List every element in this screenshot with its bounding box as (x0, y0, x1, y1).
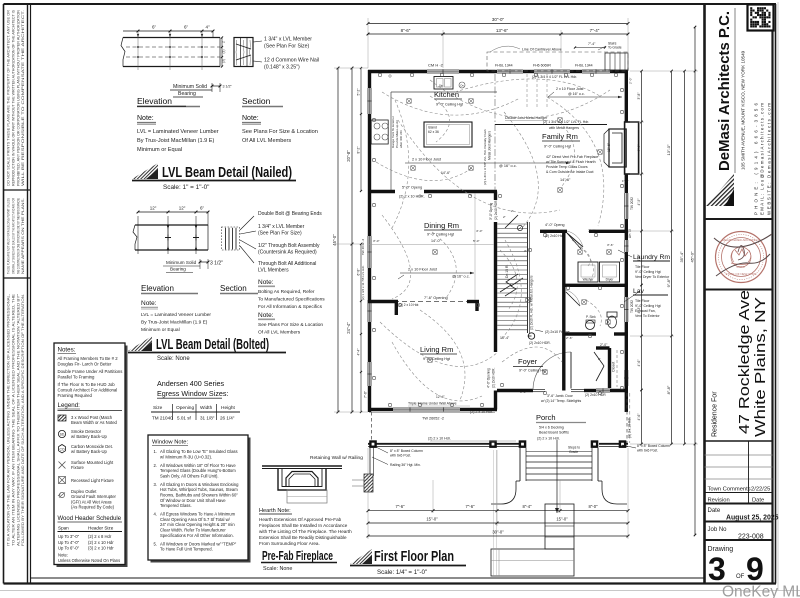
svg-text:DeMasi Architects P.C.: DeMasi Architects P.C. (717, 11, 733, 171)
svg-text:By Trus-Joist MacMillan (1.9 E: By Trus-Joist MacMillan (1.9 E) (141, 320, 208, 326)
svg-text:FH6 6069R: FH6 6069R (533, 64, 551, 68)
svg-text:THESE PLANS ARE NOT VALID FOR: THESE PLANS ARE NOT VALID FOR A BUILDING… (7, 197, 11, 274)
svg-text:See Plans For Size & Location: See Plans For Size & Location (242, 129, 318, 135)
svg-text:(2) 2x10 Hdr.: (2) 2x10 Hdr. (545, 234, 565, 238)
svg-text:& Com Outside Air Intake Duct: & Com Outside Air Intake Duct (546, 170, 593, 174)
svg-text:Bearing: Bearing (170, 267, 186, 272)
svg-text:Steps to: Steps to (568, 446, 580, 450)
svg-text:AH 75: AH 75 (628, 229, 632, 238)
svg-text:(See Plan For Size): (See Plan For Size) (264, 44, 310, 50)
svg-text:@ 16" o.c.: @ 16" o.c. (499, 164, 517, 168)
svg-text:Kitchen: Kitchen (434, 90, 459, 99)
svg-text:(2) 1-3/4 x 4 1/2" FL LVL Hdr.: (2) 1-3/4 x 4 1/2" FL LVL Hdr. (532, 75, 577, 79)
svg-text:Scale: None: Scale: None (157, 356, 190, 362)
svg-text:Clear Opening Area Of 5.7 Sf T: Clear Opening Area Of 5.7 Sf Total w/ (160, 517, 231, 522)
svg-text:(2) 2 x 10 Hdr: (2) 2 x 10 Hdr (88, 540, 114, 545)
svg-text:Triple Frame Under Wall Above: Triple Frame Under Wall Above (408, 402, 457, 406)
svg-text:11"-6": 11"-6" (607, 142, 611, 152)
svg-text:20"-8": 20"-8" (346, 150, 351, 162)
svg-text:with 6x6 Post.: with 6x6 Post. (637, 449, 658, 453)
svg-text:(2) 1 3/4 x 11 7/8 LVL Hdr.: (2) 1 3/4 x 11 7/8 LVL Hdr. (361, 265, 365, 300)
svg-text:4"-9": 4"-9" (637, 199, 641, 206)
svg-text:Section: Section (220, 284, 247, 293)
svg-text:Tile Floor: Tile Floor (635, 265, 650, 269)
svg-text:Date: Date (708, 508, 721, 514)
svg-text:9"-0" Ceiling Hgt: 9"-0" Ceiling Hgt (427, 233, 454, 237)
svg-text:All Framing Members To Be # 2: All Framing Members To Be # 2 (58, 356, 119, 361)
svg-text:9"-0" Ceiling Hgt: 9"-0" Ceiling Hgt (635, 270, 661, 274)
svg-text:(2) 2x10 HDR.: (2) 2x10 HDR. (529, 341, 551, 345)
svg-text:7"-6": 7"-6" (364, 391, 368, 398)
svg-text:Washer: Washer (583, 278, 595, 282)
svg-text:Living Rm: Living Rm (420, 345, 453, 354)
svg-text:3"-8": 3"-8" (637, 93, 641, 100)
svg-text:TW 26052 -2: TW 26052 -2 (422, 417, 444, 421)
svg-text:4"-4": 4"-4" (637, 145, 641, 152)
svg-text:8" x 8" Boxed Column: 8" x 8" Boxed Column (390, 449, 423, 453)
svg-text:Extension Shall Be Readily Dis: Extension Shall Be Readily Distinguishab… (259, 535, 347, 540)
svg-text:8"-4": 8"-4" (522, 504, 532, 509)
svg-text:WEBSITE: DemasiArchitects.c: WEBSITE: DemasiArchitects.com (767, 103, 772, 215)
svg-text:2.: 2. (154, 463, 158, 468)
svg-text:Egress Window Sizes:: Egress Window Sizes: (157, 389, 229, 398)
svg-text:6": 6" (184, 25, 189, 30)
svg-text:031047: 031047 (737, 265, 746, 269)
svg-text:LVL Members: LVL Members (258, 268, 289, 274)
svg-text:with 6x6 Post.: with 6x6 Post. (390, 454, 411, 458)
svg-text:9"-0" Ceiling Hgt: 9"-0" Ceiling Hgt (544, 145, 571, 149)
svg-text:4"-3": 4"-3" (637, 307, 641, 314)
svg-text:Note:: Note: (58, 553, 68, 558)
svg-text:30"-0": 30"-0" (492, 530, 504, 535)
svg-text:4"-6": 4"-6" (637, 360, 641, 367)
svg-text:Beam Width or As Noted: Beam Width or As Noted (71, 420, 118, 425)
svg-text:(2) 2 x 10 Hdr.: (2) 2 x 10 Hdr. (399, 303, 419, 307)
svg-text:4"-0" Openg: 4"-0" Openg (545, 223, 565, 227)
svg-text:All Windows Within 18" Of Floo: All Windows Within 18" Of Floor To Have (160, 463, 236, 468)
svg-text:(2) 1 3/4" x 4 1/2" LVL FL Hdr: (2) 1 3/4" x 4 1/2" LVL FL Hdr. (543, 120, 589, 124)
svg-text:7"-4": 7"-4" (590, 28, 600, 33)
svg-text:(2) 2x10 Frame: (2) 2x10 Frame (545, 330, 570, 334)
svg-text:Bead Board Soffits: Bead Board Soffits (539, 431, 569, 435)
svg-text:(As Required By Code): (As Required By Code) (71, 505, 115, 510)
svg-text:Island: Island (428, 126, 437, 130)
svg-text:Header Size: Header Size (88, 526, 114, 531)
svg-text:(2) 2 x 10 Hdr.: (2) 2 x 10 Hdr. (428, 437, 451, 441)
svg-text:62 x 36: 62 x 36 (428, 130, 439, 134)
svg-text:Town Comments: Town Comments (708, 487, 751, 493)
svg-text:w/ Battery Back-Up: w/ Battery Back-Up (71, 434, 108, 439)
svg-text:12 d Common Wire Nail: 12 d Common Wire Nail (264, 58, 319, 64)
svg-text:2: 2 (222, 41, 226, 43)
svg-text:Tempered Glass (Double Hung"s-: Tempered Glass (Double Hung"s-Bottom (160, 468, 236, 473)
svg-text:Height: Height (221, 405, 236, 411)
svg-text:13"-4": 13"-4" (500, 336, 510, 340)
svg-text:31 1/8": 31 1/8" (200, 416, 215, 421)
svg-text:(3) 2 x 10 Hdr: (3) 2 x 10 Hdr (88, 546, 114, 551)
svg-text:3 1/2": 3 1/2" (223, 85, 233, 89)
svg-text:2"-6": 2"-6" (566, 336, 572, 340)
svg-text:3 1/2": 3 1/2" (210, 261, 223, 267)
svg-text:Foyer: Foyer (518, 357, 538, 366)
svg-text:TW 2032: TW 2032 (630, 197, 634, 210)
svg-text:4"-4": 4"-4" (357, 349, 361, 356)
svg-text:LVL Beam Detail (Nailed): LVL Beam Detail (Nailed) (162, 164, 292, 181)
svg-text:47 Rockledge Ave: 47 Rockledge Ave (737, 290, 753, 434)
svg-text:Lav: Lav (633, 288, 645, 295)
svg-text:FHSL 1344: FHSL 1344 (495, 64, 513, 68)
svg-text:FOLLOWED BY THEIR SIGNATURE AN: FOLLOWED BY THEIR SIGNATURE AND DATE OF … (21, 294, 25, 546)
svg-text:Metal Joist Hangers: Metal Joist Hangers (488, 131, 492, 160)
svg-text:Grade: Grade (569, 450, 578, 454)
svg-text:First Floor Plan: First Floor Plan (374, 549, 454, 565)
svg-text:w/ (2) 14" Temp. Sidelights: w/ (2) 14" Temp. Sidelights (541, 399, 581, 403)
svg-text:24"-4": 24"-4" (346, 322, 351, 334)
svg-text:Hearth Note:: Hearth Note: (259, 508, 291, 514)
svg-text:Closet: Closet (612, 362, 616, 372)
svg-text:3"-6" Jamb. Door: 3"-6" Jamb. Door (547, 394, 574, 398)
svg-text:3.: 3. (154, 482, 158, 487)
svg-text:4": 4" (205, 25, 210, 30)
svg-text:35"-4": 35"-4" (679, 251, 684, 262)
svg-text:Elevation: Elevation (137, 96, 172, 106)
svg-text:OF: OF (736, 574, 745, 580)
svg-text:Revision: Revision (708, 498, 730, 504)
svg-text:5"-2": 5"-2" (357, 89, 361, 96)
svg-text:(2) 2x10 HDR: (2) 2x10 HDR (585, 393, 606, 397)
svg-text:8" x 8" Boxed Column: 8" x 8" Boxed Column (637, 444, 670, 448)
svg-text:Elevation: Elevation (141, 284, 174, 293)
svg-text:(2) 2x10 HDR.: (2) 2x10 HDR. (494, 200, 498, 220)
svg-text:Bolting As Required, Refer: Bolting As Required, Refer (258, 289, 315, 295)
svg-text:ALTERING LICENSED PROFESSIONAL: ALTERING LICENSED PROFESSIONAL SHALL AFF… (16, 294, 20, 546)
svg-text:For All Information & Specific: For All Information & Specifics (258, 304, 323, 310)
svg-text:8"-6": 8"-6" (401, 28, 411, 33)
svg-text:Rooms, Bathtubs and Showers Wi: Rooms, Bathtubs and Showers Within 60" (160, 493, 238, 498)
svg-text:7"-6": 7"-6" (395, 504, 405, 509)
svg-text:7"-4": 7"-4" (588, 42, 596, 46)
svg-text:30"-0": 30"-0" (492, 17, 505, 22)
svg-text:2": 2" (598, 357, 601, 361)
svg-text:7"-6": 7"-6" (588, 229, 596, 233)
svg-text:Scale: None: Scale: None (263, 566, 292, 572)
svg-text:13"-6": 13"-6" (496, 28, 509, 33)
svg-text:2 x 10 Floor Joist: 2 x 10 Floor Joist (408, 268, 438, 272)
svg-text:5.01 sf: 5.01 sf (177, 416, 192, 421)
svg-text:Window Note:: Window Note: (152, 440, 188, 446)
svg-text:4"-6": 4"-6" (637, 255, 641, 262)
svg-text:Up To 6"-0": Up To 6"-0" (58, 546, 80, 551)
svg-text:To Have Full Unit Tempered.: To Have Full Unit Tempered. (160, 547, 213, 552)
svg-text:Scale: 1" = 1"-0": Scale: 1" = 1"-0" (163, 184, 209, 191)
svg-text:Legend:: Legend: (58, 402, 81, 409)
svg-text:IT IS A VIOLATION OF THE LAW F: IT IS A VIOLATION OF THE LAW FOR ANY PER… (7, 294, 11, 546)
svg-text:Notes:: Notes: (58, 347, 76, 354)
svg-text:4.: 4. (154, 512, 158, 517)
svg-text:To Grade: To Grade (608, 46, 622, 50)
svg-text:Sash Only, All Others Full Uni: Sash Only, All Others Full Unit). (160, 473, 219, 478)
svg-text:Minimum or Equal: Minimum or Equal (137, 147, 182, 153)
svg-text:14"-0": 14"-0" (431, 239, 441, 243)
svg-text:Pre-Fab Fireplace: Pre-Fab Fireplace (262, 548, 333, 563)
svg-text:Wood Header Schedule: Wood Header Schedule (58, 516, 122, 522)
svg-text:6": 6" (152, 25, 157, 30)
svg-text:5/4 x 6 Decking: 5/4 x 6 Decking (539, 426, 564, 430)
svg-text:4"-0": 4"-0" (476, 229, 482, 233)
svg-text:6"-8": 6"-8" (357, 269, 361, 276)
svg-text:Parallel To Framing: Parallel To Framing (58, 374, 96, 379)
svg-text:2"-0": 2"-0" (600, 343, 608, 347)
svg-text:WILL BE RESPONSIBLE TO COMPENS: WILL BE RESPONSIBLE TO COMPENSATE THE AR… (21, 10, 25, 186)
svg-text:Clear Width. Refer To Manufact: Clear Width. Refer To Manufacturer (160, 528, 226, 533)
svg-text:9"-0" Ceiling Hgt: 9"-0" Ceiling Hgt (519, 369, 546, 373)
svg-text:To Manufactured Specifications: To Manufactured Specifications (258, 297, 325, 303)
svg-text:Section: Section (242, 96, 271, 106)
svg-text:Opening: Opening (176, 405, 194, 411)
svg-text:3"-0" Openg: 3"-0" Openg (489, 202, 493, 220)
svg-text:Bearing: Bearing (178, 91, 196, 97)
svg-text:Tile Floor: Tile Floor (635, 299, 650, 303)
svg-text:Andersen 400 Series: Andersen 400 Series (157, 379, 225, 388)
svg-text:Framing Required: Framing Required (58, 393, 93, 398)
svg-text:45"-0": 45"-0" (690, 251, 695, 262)
svg-text:ORIGINALLY SIGNED AND SEALED B: ORIGINALLY SIGNED AND SEALED BY THE ARCH… (11, 198, 15, 274)
svg-text:CO: CO (59, 447, 64, 451)
svg-text:@ 16" o.c.: @ 16" o.c. (452, 275, 470, 279)
svg-text:Fireplaces Shall Be Installed: Fireplaces Shall Be Installed In Accorda… (259, 523, 348, 528)
svg-text:Line Of Cantilever Above: Line Of Cantilever Above (522, 48, 562, 52)
svg-text:Note:: Note: (258, 279, 274, 286)
svg-text:with The Listing Of The Firepl: with The Listing Of The Fireplace. The H… (259, 529, 352, 534)
svg-text:STATE OF NEW YORK: STATE OF NEW YORK (725, 272, 756, 276)
svg-text:Size: Size (153, 405, 163, 411)
svg-text:If The Floor Is To Be HUD Job: If The Floor Is To Be HUD Job (58, 382, 116, 387)
svg-text:8"-0": 8"-0" (588, 504, 598, 509)
svg-text:3": 3" (524, 249, 527, 253)
svg-text:Width: Width (200, 405, 213, 411)
svg-text:9"-8": 9"-8" (666, 278, 671, 287)
svg-text:1"-2": 1"-2" (622, 179, 628, 183)
svg-text:TW 2032 -2: TW 2032 -2 (361, 239, 365, 255)
svg-text:PROHIBITED. ANY PERSON OR CO: PROHIBITED. ANY PERSON OR CORPORATION US… (16, 9, 20, 186)
svg-text:Provide Temp Glass Doors: Provide Temp Glass Doors (546, 165, 588, 169)
svg-text:w/ Minimum R-3U (U=0.32).: w/ Minimum R-3U (U=0.32). (160, 454, 212, 459)
svg-text:Ov: Ov (460, 84, 464, 88)
svg-text:Hearth Extensions Of Approved: Hearth Extensions Of Approved Pre-Fab (259, 517, 342, 522)
svg-text:P. Sink: P. Sink (586, 315, 596, 319)
svg-text:2 x 10 Floor Joist: 2 x 10 Floor Joist (556, 87, 583, 91)
svg-text:Porch: Porch (536, 413, 556, 422)
svg-text:Unless Otherwise Noted On Plan: Unless Otherwise Noted On Plans (58, 558, 120, 563)
svg-text:(2) 2 x 10 Hdr.: (2) 2 x 10 Hdr. (470, 410, 493, 414)
svg-text:TO ALTER AN ITEM IN ANY WAY. I: TO ALTER AN ITEM IN ANY WAY. IF AN ITEM … (11, 293, 15, 546)
svg-text:FHSL 1344: FHSL 1344 (575, 64, 593, 68)
svg-text:14"-6": 14"-6" (441, 171, 451, 175)
svg-text:1.: 1. (154, 449, 158, 454)
svg-text:Minimum Solid: Minimum Solid (166, 260, 197, 265)
svg-text:LVL = Laminated Veneer Lumber: LVL = Laminated Veneer Lumber (141, 312, 211, 318)
svg-text:REGISTERED ARCHITECT: REGISTERED ARCHITECT (722, 238, 760, 242)
svg-text:2": 2" (503, 215, 506, 219)
svg-text:All Glazing To Be Low "E" Insu: All Glazing To Be Low "E" Insulated Glas… (160, 449, 238, 454)
svg-text:Scale: 1/4" = 1"-0": Scale: 1/4" = 1"-0" (377, 569, 427, 576)
svg-text:Douglas Fir- Larch Or Better: Douglas Fir- Larch Or Better (58, 361, 113, 366)
svg-text:Through Bolt All Additional: Through Bolt All Additional (258, 261, 316, 267)
svg-text:Consult Architect For Addition: Consult Architect For Additional (58, 387, 118, 392)
svg-text:(3): (3) (222, 50, 226, 54)
svg-text:Job No: Job No (708, 527, 728, 533)
svg-text:Dining Rm: Dining Rm (424, 221, 459, 230)
svg-text:(2) 2x10 FL Hdr. w/ Metal Jst.: (2) 2x10 FL Hdr. w/ Metal Jst. Hangers (530, 275, 534, 330)
svg-text:CM H -2: CM H -2 (428, 63, 444, 68)
svg-text:White Plains, NY: White Plains, NY (753, 297, 769, 437)
svg-text:REPRODUCTION IN WHOLE OR PART: REPRODUCTION IN WHOLE OR PART WITHOUT TH… (11, 9, 15, 186)
svg-text:(2) 2 x 8 Hdr: (2) 2 x 8 Hdr (88, 534, 112, 539)
svg-text:7"-6": 7"-6" (465, 504, 475, 509)
svg-text:3"-0": 3"-0" (373, 239, 379, 243)
svg-text:Residence For: Residence For (712, 391, 719, 437)
svg-text:2"-0": 2"-0" (629, 78, 633, 84)
svg-text:Dn 15 R.: Dn 15 R. (505, 265, 509, 278)
svg-text:Note:: Note: (137, 115, 154, 122)
svg-text:Railing 36" Hgt. Min.: Railing 36" Hgt. Min. (390, 463, 421, 467)
svg-text:Family Rm: Family Rm (542, 132, 578, 141)
svg-text:OneKey MLS: OneKey MLS (722, 584, 800, 598)
svg-text:1 3/4" x LVL Member: 1 3/4" x LVL Member (264, 37, 312, 43)
svg-text:8"-8": 8"-8" (666, 385, 671, 394)
svg-text:223-008: 223-008 (738, 534, 764, 541)
svg-text:3"-0": 3"-0" (520, 390, 526, 394)
svg-text:TW 2032: TW 2032 (630, 300, 634, 313)
svg-text:3: 3 (708, 551, 726, 587)
svg-text:15"-0": 15"-0" (556, 517, 568, 522)
svg-text:Up To 4"-0": Up To 4"-0" (58, 540, 80, 545)
svg-text:TM 21040: TM 21040 (152, 416, 173, 421)
svg-text:Of All LVL Members: Of All LVL Members (258, 330, 301, 336)
svg-text:4"-6": 4"-6" (637, 414, 641, 421)
svg-text:(See Plan For Size): (See Plan For Size) (258, 231, 302, 237)
svg-text:12": 12" (150, 206, 157, 211)
svg-text:THE CONSTRUCTION OF ONE STRUCT: THE CONSTRUCTION OF ONE STRUCTURE ONLY B… (16, 197, 20, 274)
svg-text:12": 12" (179, 206, 186, 211)
svg-text:2/22/25: 2/22/25 (751, 487, 770, 493)
svg-text:Minimum or Equal: Minimum or Equal (141, 327, 180, 333)
svg-text:All Egress Windows To Have A M: All Egress Windows To Have A Minimum (160, 512, 236, 517)
svg-text:See Plans For Size & Location: See Plans For Size & Location (258, 322, 323, 328)
svg-text:4"-0" Opening: 4"-0" Opening (487, 368, 491, 388)
svg-text:(3): (3) (222, 59, 226, 63)
svg-text:August 25, 2025: August 25, 2025 (726, 515, 779, 522)
svg-text:5.: 5. (154, 541, 158, 546)
svg-text:Note:: Note: (141, 300, 157, 307)
svg-text:EMAIL: Lou@DemasiArchitect: EMAIL: Lou@DemasiArchitects.com (760, 103, 765, 215)
svg-text:Note:: Note: (258, 312, 274, 319)
svg-text:Retaining Wall w/ Railing: Retaining Wall w/ Railing (310, 455, 363, 461)
svg-text:7"-6" Opening: 7"-6" Opening (424, 296, 448, 300)
svg-text:LVL Beam Detail (Bolted): LVL Beam Detail (Bolted) (156, 337, 269, 353)
svg-text:Up To 3"-0": Up To 3"-0" (58, 534, 80, 539)
svg-text:Double Frame Under All Partiti: Double Frame Under All Partitions (58, 369, 123, 374)
svg-text:DO NOT SCALE PRINTS THESE PLA: DO NOT SCALE PRINTS THESE PLANS ARE THE … (7, 9, 11, 186)
svg-text:1 3/4" x LVL Member: 1 3/4" x LVL Member (258, 224, 305, 230)
svg-text:(2) 1-3/4 x 9 7/8" LVL Hdr. Pa: (2) 1-3/4 x 9 7/8" LVL Hdr. Partially Fl… (483, 129, 487, 185)
svg-text:5"-0" Openg: 5"-0" Openg (402, 186, 422, 190)
svg-text:2": 2" (511, 209, 514, 213)
svg-text:Dryer: Dryer (606, 278, 615, 282)
svg-text:13"-0": 13"-0" (666, 144, 671, 155)
svg-text:All Glazing In Doors & Windows: All Glazing In Doors & Windows Enclosing (160, 482, 239, 487)
svg-text:(2) 2x10 HDR.: (2) 2x10 HDR. (492, 368, 496, 388)
svg-text:Of Window or Door Unit Shall H: Of Window or Door Unit Shall Have (160, 498, 226, 503)
svg-text:(0.148" x 3.25"): (0.148" x 3.25") (264, 65, 300, 71)
svg-text:Date: Date (752, 498, 764, 504)
svg-text:9: 9 (746, 551, 764, 587)
svg-text:(Countersink As Required): (Countersink As Required) (258, 250, 317, 256)
svg-text:after 400 cfm: after 400 cfm (399, 130, 403, 148)
svg-text:Span: Span (58, 526, 69, 531)
svg-text:From Surrounding Floor Area.: From Surrounding Floor Area. (259, 541, 320, 546)
svg-text:6": 6" (200, 206, 205, 211)
svg-text:Vent Dryer To Exterior: Vent Dryer To Exterior (635, 275, 670, 279)
svg-text:(2) 2 x 10 Hdr.: (2) 2 x 10 Hdr. (537, 437, 560, 441)
svg-text:LVL = Laminated Veneer Lumber: LVL = Laminated Veneer Lumber (137, 129, 219, 135)
svg-text:105 SMITH AVENUE, MOUNT KISCO,: 105 SMITH AVENUE, MOUNT KISCO, NEW YORK … (741, 50, 746, 170)
svg-text:42" Direct Vent Pre-Fab Firepl: 42" Direct Vent Pre-Fab Fireplace (546, 155, 598, 159)
svg-text:NAME APPEARS ON THE PLANS.: NAME APPEARS ON THE PLANS. (21, 198, 25, 274)
svg-text:Double Bolt @ Bearing Ends: Double Bolt @ Bearing Ends (258, 211, 322, 217)
svg-text:@ 16" o.c.: @ 16" o.c. (568, 92, 585, 96)
svg-text:w/ Battery Back-Up: w/ Battery Back-Up (71, 449, 108, 454)
svg-text:(3) 2 x 10 Hdr.: (3) 2 x 10 Hdr. (628, 417, 632, 438)
svg-text:26 1/4": 26 1/4" (220, 416, 235, 421)
svg-text:1/2" Through Bolt Assembly: 1/2" Through Bolt Assembly (258, 243, 320, 249)
svg-text:Vent To Exterior: Vent To Exterior (635, 314, 660, 318)
svg-text:SD: SD (60, 433, 65, 437)
svg-text:5"-0": 5"-0" (473, 239, 479, 243)
svg-text:Recessed Light Fixture: Recessed Light Fixture (71, 478, 114, 483)
svg-text:3"-6": 3"-6" (607, 243, 613, 247)
svg-text:Minimum Solid: Minimum Solid (173, 84, 207, 90)
svg-text:All Windows or Doors Marked w/: All Windows or Doors Marked w/ "TEMP" (160, 541, 237, 546)
svg-text:Specifications For All Other I: Specifications For All Other Information… (160, 533, 234, 538)
svg-text:Note:: Note: (242, 115, 259, 122)
svg-text:8"-2": 8"-2" (357, 147, 361, 154)
svg-text:By Trus-Joist MacMillan (1.9 E: By Trus-Joist MacMillan (1.9 E) (137, 138, 215, 144)
svg-text:Hot Tubs, Whirlpool Tubs, Saun: Hot Tubs, Whirlpool Tubs, Saunas, Steam (160, 487, 238, 492)
svg-text:Fixture: Fixture (71, 465, 84, 470)
svg-text:Of All LVL Members: Of All LVL Members (242, 138, 291, 144)
svg-text:w/ Tile Surround & Flush Heart: w/ Tile Surround & Flush Hearth (546, 160, 596, 164)
svg-text:15"-0": 15"-0" (426, 517, 438, 522)
svg-text:12"-4": 12"-4" (436, 395, 445, 399)
svg-text:Tempered Glass.: Tempered Glass. (160, 503, 192, 508)
svg-text:24" min Clear Opening Height &: 24" min Clear Opening Height & 20" min (160, 522, 235, 527)
